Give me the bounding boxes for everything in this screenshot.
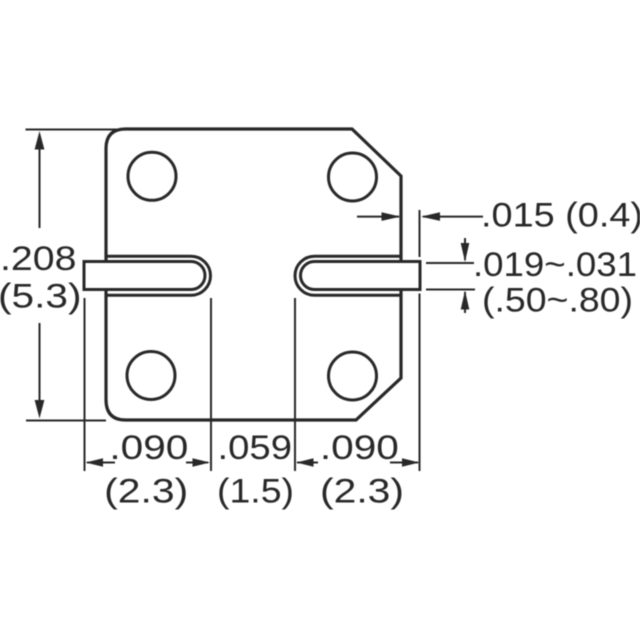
svg-text:(5.3): (5.3) bbox=[0, 278, 82, 316]
svg-text:.019~.031: .019~.031 bbox=[473, 246, 637, 284]
svg-text:(2.3): (2.3) bbox=[104, 473, 188, 511]
svg-text:.090: .090 bbox=[320, 429, 399, 467]
svg-text:.059: .059 bbox=[218, 429, 293, 467]
svg-text:(1.5): (1.5) bbox=[217, 473, 294, 511]
svg-text:.090: .090 bbox=[109, 429, 188, 467]
svg-text:.015 (0.4): .015 (0.4) bbox=[481, 196, 640, 234]
svg-text:(2.3): (2.3) bbox=[320, 473, 404, 511]
svg-text:.208: .208 bbox=[0, 240, 77, 278]
svg-text:(.50~.80): (.50~.80) bbox=[482, 282, 633, 320]
